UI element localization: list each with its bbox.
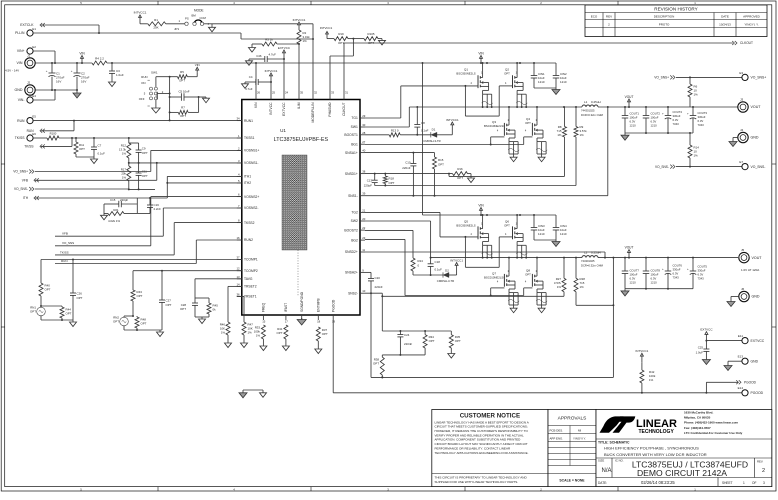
U1 pin 4 ITH1	[237, 172, 252, 178]
svg-text:7343: 7343	[698, 277, 705, 281]
resistor R12 13.3k	[119, 138, 131, 164]
svg-text:R1: R1	[154, 18, 158, 22]
gnd bus ch2	[621, 288, 693, 296]
svg-text:VO_SNS-: VO_SNS-	[14, 187, 28, 191]
svg-text:R19: R19	[338, 32, 344, 36]
svg-text:E5: E5	[32, 114, 36, 118]
svg-text:EXTVCC: EXTVCC	[751, 339, 765, 343]
resistor R33 100k	[254, 325, 267, 351]
inductor L2 0.25uH	[581, 250, 604, 267]
svg-text:31: 31	[345, 91, 349, 95]
svg-text:VOSNS2+: VOSNS2+	[244, 195, 259, 199]
svg-text:35: 35	[300, 91, 304, 95]
connector E6	[15, 132, 47, 141]
svg-text:C20: C20	[375, 276, 381, 280]
capacitor CIN3	[531, 215, 545, 240]
svg-text:OPT: OPT	[180, 307, 186, 311]
svg-text:1%: 1%	[649, 378, 654, 382]
svg-text:R15: R15	[438, 158, 444, 162]
TCOMP2 wire	[133, 271, 242, 290]
svg-text:OPT: OPT	[141, 321, 147, 325]
resistor R34 OPT	[423, 331, 435, 355]
svg-text:REV: REV	[606, 15, 612, 19]
wire VIN pin26	[255, 63, 257, 95]
svg-text:1%: 1%	[557, 133, 562, 137]
svg-text:PGOOD: PGOOD	[744, 381, 757, 385]
svg-text:0.25uH: 0.25uH	[591, 250, 601, 254]
svg-text:ILIM: ILIM	[297, 102, 301, 109]
svg-text:1630 McCarthy Blvd.: 1630 McCarthy Blvd.	[684, 410, 714, 414]
ground	[73, 90, 81, 98]
svg-text:220nF: 220nF	[402, 166, 410, 170]
capacitor C7 0.1uF	[91, 138, 105, 157]
svg-text:16V: 16V	[81, 80, 86, 84]
svg-text:17: 17	[285, 320, 289, 324]
switch SW1 RUN	[139, 70, 164, 113]
source ladder Q7 and gnd	[508, 289, 519, 313]
revision history table	[585, 5, 767, 37]
svg-text:02/26/14 08:23:25: 02/26/14 08:23:25	[641, 480, 675, 485]
capacitor C20 220nF	[365, 272, 383, 294]
svg-text:DESCRIPTION: DESCRIPTION	[654, 15, 675, 19]
capacitor COUT5	[687, 258, 707, 289]
capacitor C15 220pF	[104, 198, 137, 207]
svg-text:1%: 1%	[580, 133, 585, 137]
VFB wire	[22, 162, 158, 183]
svg-text:1%: 1%	[557, 285, 562, 289]
svg-text:15: 15	[262, 320, 266, 324]
svg-text:1.0uF: 1.0uF	[696, 350, 704, 354]
svg-text:INTVCC1: INTVCC1	[450, 258, 463, 262]
svg-text:25: 25	[272, 91, 276, 95]
svg-text:1%: 1%	[694, 93, 699, 97]
svg-text:INTVCC: INTVCC	[269, 102, 273, 115]
svg-text:GND: GND	[752, 295, 760, 299]
svg-text:J5: J5	[741, 248, 745, 252]
svg-text:0.1uF: 0.1uF	[435, 267, 443, 271]
SNS1- wire	[365, 106, 609, 196]
capacitor C28 OPT	[180, 303, 198, 317]
svg-text:RUN: RUN	[17, 119, 25, 123]
SW1 pin wire	[365, 107, 409, 127]
svg-text:VO_SNS+: VO_SNS+	[13, 170, 28, 174]
svg-text:J1: J1	[27, 54, 31, 58]
svg-text:OF: OF	[752, 481, 756, 485]
U1 pin 39 SNS1-	[348, 192, 366, 198]
svg-text:38: 38	[362, 170, 366, 174]
svg-text:SNSA1+: SNSA1+	[345, 151, 358, 155]
connector E4 and wire	[18, 90, 55, 103]
svg-text:TECHNOLOGY APPLICATIONS ENGINE: TECHNOLOGY APPLICATIONS ENGINEERING FOR …	[435, 451, 529, 455]
svg-text:220nF: 220nF	[404, 342, 412, 346]
title block logo section	[596, 410, 772, 487]
wire PLLIN to MODE	[33, 33, 314, 40]
svg-text:CLKOUT: CLKOUT	[740, 41, 753, 45]
svg-text:SHEET: SHEET	[722, 481, 733, 485]
transistor Q8	[525, 258, 543, 289]
svg-text:DATE: DATE	[721, 15, 729, 19]
svg-text:PLLIN: PLLIN	[15, 31, 25, 35]
svg-text:INTVCC1: INTVCC1	[293, 18, 306, 22]
capacitor C18 0.1uF	[428, 258, 443, 276]
svg-text:37: 37	[236, 256, 240, 260]
svg-text:E6: E6	[32, 132, 36, 136]
svg-text:BG1: BG1	[351, 142, 358, 146]
svg-text:OPT: OPT	[45, 288, 51, 292]
U1 exposed pad hatch	[282, 155, 307, 250]
svg-text:SW2: SW2	[351, 219, 358, 223]
U1 pin 13 TAVG	[236, 275, 252, 281]
source ladder Q8 and gnd	[536, 289, 547, 313]
svg-text:OPT: OPT	[455, 339, 461, 343]
wire CLKOUT	[344, 43, 733, 95]
svg-text:C15: C15	[110, 198, 116, 202]
U1 pin 9 SNSA2+	[345, 268, 365, 274]
PGOOD chevron	[706, 380, 756, 393]
VO_SNS+ wire	[13, 150, 242, 173]
svg-text:PROTO: PROTO	[659, 22, 670, 26]
BG2 gate wire	[365, 239, 532, 296]
ground	[41, 319, 77, 327]
capacitor CIN1	[531, 63, 545, 88]
svg-text:APPROVED: APPROVED	[743, 15, 761, 19]
svg-text:12: 12	[236, 267, 240, 271]
svg-text:4.7uF: 4.7uF	[269, 53, 277, 57]
svg-text:J6: J6	[741, 287, 745, 291]
svg-text:+: +	[687, 267, 689, 271]
svg-text:OPT: OPT	[66, 311, 72, 315]
resistor R2 3.01k	[293, 18, 311, 95]
svg-text:VIN+: VIN+	[17, 49, 25, 53]
U1 pin 6 VOSNS2+	[237, 193, 260, 199]
svg-text:BOOST2: BOOST2	[344, 228, 358, 232]
connector E2 and wire	[17, 45, 56, 64]
transistor Q2	[504, 62, 523, 90]
svg-text:TKSS2: TKSS2	[244, 221, 255, 225]
svg-text:R13 0: R13 0	[391, 129, 399, 133]
svg-text:C7: C7	[98, 143, 102, 147]
U1 pin 32 MODE/PLLIN	[311, 91, 317, 123]
svg-text:INTVCC1: INTVCC1	[320, 26, 333, 30]
VIN flag ch2	[478, 203, 484, 215]
svg-text:RUN2: RUN2	[244, 238, 253, 242]
svg-text:10: 10	[362, 289, 366, 293]
svg-text:TRSET2: TRSET2	[244, 285, 257, 289]
svg-text:TCOMP2: TCOMP2	[244, 269, 258, 273]
resistor R42 100k	[635, 349, 655, 393]
svg-text:R4 2.2: R4 2.2	[95, 56, 104, 60]
svg-text:C18: C18	[435, 260, 441, 264]
op-amp U1 LTC3875EUJ body	[242, 100, 360, 316]
svg-text:20K: 20K	[153, 26, 158, 30]
U1 pin 16 RUN2	[236, 236, 253, 242]
wire EXTCLK to PLLIN	[20, 23, 100, 34]
svg-text:1210: 1210	[630, 281, 637, 285]
capacitor CIN4	[553, 215, 567, 240]
RUN2 net	[55, 240, 242, 264]
resistor R48 OPT	[132, 315, 147, 330]
svg-text:GND: GND	[751, 136, 759, 140]
svg-text:TK/SS: TK/SS	[15, 136, 26, 140]
svg-text:13: 13	[236, 275, 240, 279]
U1 pin 24 EXTVCC	[282, 91, 288, 116]
svg-text:4.02k 1%: 4.02k 1%	[108, 219, 120, 223]
svg-text:MODE/PLLIN: MODE/PLLIN	[311, 102, 315, 123]
wire VOSNS1-	[129, 162, 242, 164]
svg-text:BG2: BG2	[351, 238, 358, 242]
TKSS2 net	[55, 223, 242, 255]
svg-text:29: 29	[362, 114, 366, 118]
svg-text:21: 21	[362, 208, 366, 212]
svg-text:YINGYI, Y.: YINGYI, Y.	[744, 22, 758, 26]
U1 pin 12 TCOMP2	[236, 267, 257, 273]
svg-text:THIS CIRCUIT IS PROPRIETARY TO: THIS CIRCUIT IS PROPRIETARY TO LINEAR TE…	[435, 476, 528, 480]
svg-text:SGND/PGND: SGND/PGND	[300, 291, 304, 312]
svg-text:HIGH EFFICIENCY POLYPHASE , SY: HIGH EFFICIENCY POLYPHASE , SYNCHRONOUS	[604, 446, 699, 451]
svg-text:744301025: 744301025	[581, 259, 595, 263]
resistor R17 20k	[121, 163, 131, 191]
svg-text:1210: 1210	[538, 80, 545, 84]
svg-text:DATE:: DATE:	[598, 481, 607, 485]
svg-text:SIZE: SIZE	[598, 459, 604, 463]
svg-text:IC NO.: IC NO.	[615, 459, 624, 463]
transistor Q5	[456, 214, 488, 242]
U1 pin 26 VIN	[254, 91, 260, 109]
U1 pin 40 SNSA1+	[345, 149, 366, 155]
RUN chevron	[27, 121, 74, 133]
svg-text:C25: C25	[698, 345, 704, 349]
svg-text:1210: 1210	[538, 232, 545, 236]
svg-text:OPT: OPT	[457, 176, 463, 180]
svg-text:VFB: VFB	[62, 232, 68, 236]
svg-text:E11: E11	[738, 334, 743, 338]
svg-text:VFB: VFB	[22, 179, 28, 183]
svg-text:ENTMPB: ENTMPB	[317, 297, 321, 312]
svg-text:PGOOD: PGOOD	[751, 391, 764, 395]
svg-text:GND: GND	[751, 359, 759, 363]
resistor R15 OPT	[433, 153, 445, 197]
svg-text:1210: 1210	[651, 124, 658, 128]
transistor Q1	[456, 62, 488, 90]
svg-text:E1: E1	[32, 27, 36, 31]
connector J1	[5, 54, 35, 73]
svg-text:VOSNS1-: VOSNS1-	[244, 161, 258, 165]
svg-text:J2: J2	[27, 81, 31, 85]
svg-text:SW1: SW1	[351, 125, 358, 129]
connector E5 and RUN wire	[17, 114, 242, 123]
capacitor COUT8	[643, 258, 661, 289]
svg-text:OPT: OPT	[438, 162, 444, 166]
svg-text:BOOST1: BOOST1	[344, 133, 358, 137]
svg-text:VOSNS2-: VOSNS2-	[244, 206, 258, 210]
customer notice block	[432, 410, 548, 487]
SNSA1+ wire	[365, 152, 435, 154]
svg-text:JP1: JP1	[174, 27, 180, 31]
svg-text:OPT: OPT	[277, 331, 283, 335]
U1 pin 21 TG2	[351, 208, 365, 214]
svg-text:R100: R100	[50, 131, 57, 135]
capacitor C8 0.1uF	[414, 107, 428, 136]
BG1 gate wire	[365, 137, 532, 146]
svg-text:220pF: 220pF	[120, 198, 128, 202]
svg-text:SNS1-: SNS1-	[348, 194, 358, 198]
svg-text:YINGYI Y.: YINGYI Y.	[573, 436, 586, 440]
svg-text:7343: 7343	[673, 122, 680, 126]
svg-text:744301025: 744301025	[581, 109, 595, 113]
U1 pin 28 BOOST1	[344, 131, 365, 137]
resistor R28 715	[574, 258, 585, 306]
connector J6 and ground	[727, 287, 760, 307]
svg-text:ITH1: ITH1	[244, 175, 251, 179]
source ladder Q4 and gnd	[536, 138, 547, 162]
svg-text:E2: E2	[32, 45, 36, 49]
SW2 node rail	[430, 257, 615, 259]
diode D2 CMDSH-3-TR	[413, 269, 457, 283]
svg-text:OFF: OFF	[139, 97, 145, 101]
PGOOD wire	[333, 320, 742, 394]
svg-text:1210: 1210	[560, 80, 567, 84]
U1 pin 11 SNSD2+	[345, 248, 366, 254]
capacitor CIN2	[553, 63, 567, 88]
svg-text:VOSNS1+: VOSNS1+	[244, 149, 259, 153]
SW1 node rail	[409, 106, 582, 108]
svg-text:1%: 1%	[248, 330, 253, 334]
svg-text:VIN-: VIN-	[18, 98, 25, 102]
svg-text:TG1: TG1	[351, 116, 358, 120]
U1 pin 20 SW2	[351, 217, 366, 223]
U1 pin 25 INTVCC	[269, 91, 275, 115]
VOUT flag	[625, 95, 634, 107]
connector E3	[739, 71, 766, 81]
title block text	[598, 441, 765, 487]
cluster bottom bus	[382, 354, 425, 356]
svg-text:J4: J4	[740, 128, 744, 132]
U1 pin 33 PHASMD	[328, 91, 334, 117]
connector J5	[739, 248, 762, 272]
svg-text:OPT: OPT	[338, 41, 344, 45]
svg-text:REV.: REV.	[757, 460, 763, 464]
SNSD1+ wire	[365, 173, 453, 175]
SGND ground	[297, 318, 306, 325]
diode D1 CMDSH-3-TR	[423, 128, 452, 144]
svg-text:1210: 1210	[630, 124, 637, 128]
svg-text:MODE: MODE	[194, 9, 204, 13]
source ladder Q3 and gnd	[508, 138, 519, 162]
connector J3	[738, 98, 761, 113]
svg-text:18: 18	[317, 320, 321, 324]
resistor R43 OPT	[131, 290, 143, 316]
svg-text:E7: E7	[739, 160, 743, 164]
resistor R11 OPT	[74, 138, 85, 157]
U1 pin 37 TCOMP1	[236, 256, 257, 262]
svg-text:1210: 1210	[651, 281, 658, 285]
connector E7	[739, 160, 765, 170]
svg-text:VO_SNS+: VO_SNS+	[751, 76, 767, 80]
svg-text:L2: L2	[584, 250, 588, 254]
svg-text:E13: E13	[738, 355, 744, 359]
capacitor C4 4.7uF	[242, 69, 278, 95]
capacitor COUT7	[622, 258, 640, 289]
svg-text:OPT: OPT	[166, 303, 172, 307]
svg-text:OPT: OPT	[180, 114, 186, 118]
resistor R100	[47, 131, 242, 140]
svg-text:R21: R21	[113, 208, 119, 212]
svg-text:REVISION HISTORY: REVISION HISTORY	[654, 7, 697, 12]
svg-text:EXTVCC: EXTVCC	[282, 102, 286, 116]
VOSNS2- net	[55, 208, 242, 236]
VIN flag ch1	[478, 51, 484, 63]
svg-text:OPT: OPT	[179, 78, 185, 82]
svg-text:L1: L1	[584, 100, 588, 104]
svg-text:1: 1	[743, 481, 745, 485]
capacitor C26 OPT	[70, 259, 83, 321]
svg-text:16V: 16V	[56, 80, 61, 84]
VOUT rail	[598, 106, 738, 108]
svg-text:+: +	[687, 112, 689, 116]
svg-text:SCALE = NONE: SCALE = NONE	[559, 479, 585, 483]
VIN flag	[79, 51, 85, 63]
svg-text:OPT: OPT	[137, 294, 143, 298]
source ladder Q1	[482, 90, 493, 108]
svg-text:PCB DES.: PCB DES.	[550, 428, 564, 432]
svg-text:VIN: VIN	[478, 51, 484, 55]
thermistor RN1 OPT	[30, 305, 45, 320]
SNS2- wire	[365, 293, 564, 296]
svg-text:ITH: ITH	[23, 196, 29, 200]
svg-text:16: 16	[236, 236, 240, 240]
resistor R21 4.02k	[104, 204, 137, 223]
svg-text:LTC Confidential-For Customer: LTC Confidential-For Customer Use Only	[684, 431, 743, 435]
svg-text:D2: D2	[445, 269, 449, 273]
svg-text:VIN: VIN	[254, 102, 258, 108]
svg-text:40: 40	[362, 149, 366, 153]
svg-text:EXTVCC: EXTVCC	[278, 46, 291, 50]
svg-text:VO_SNS-: VO_SNS-	[751, 165, 766, 169]
U1 pin 7 VOSNS2-	[237, 204, 259, 210]
resistor R8 715	[448, 107, 567, 176]
SW2 pin wire	[365, 221, 431, 258]
resistor R1 20K	[134, 11, 181, 32]
svg-text:VO_SNS-: VO_SNS-	[655, 165, 669, 169]
inductor L1 0.25uH	[581, 100, 604, 117]
svg-text:OPT: OPT	[322, 332, 328, 336]
svg-text:LTC3875EUJ#PBF-ES: LTC3875EUJ#PBF-ES	[274, 137, 329, 143]
capacitor C46 4.7uF	[246, 46, 291, 95]
svg-text:4.7uF: 4.7uF	[245, 87, 253, 91]
VOSNS2+ net	[55, 197, 242, 246]
svg-text:VIN: VIN	[79, 51, 85, 55]
svg-text:C10: C10	[405, 161, 411, 165]
svg-text:220pF: 220pF	[364, 183, 372, 187]
VOUT flag ch2	[625, 245, 634, 257]
svg-text:GND: GND	[15, 88, 23, 92]
resistor R3 1k	[249, 37, 300, 52]
capacitor COUT3	[687, 107, 707, 133]
svg-text:CCM: CCM	[200, 16, 207, 20]
source ladder Q2	[516, 90, 527, 108]
svg-text:3: 3	[763, 481, 765, 485]
U1 pin 27 BG1	[351, 140, 366, 146]
connector J4 and ground	[729, 128, 759, 147]
svg-text:10/24/13: 10/24/13	[719, 22, 731, 26]
svg-text:E14: E14	[738, 386, 744, 390]
VO_SNS- wire	[14, 187, 155, 191]
resistor R13 0	[365, 129, 431, 137]
resistor R105 OPT	[353, 32, 385, 45]
svg-text:2: 2	[762, 468, 765, 474]
SNSD1 mid wire	[375, 185, 576, 187]
CLKOUT chevron	[732, 41, 753, 45]
